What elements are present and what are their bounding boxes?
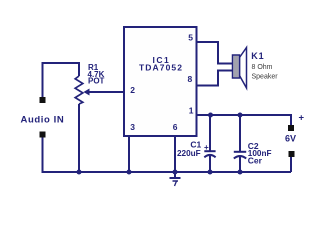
svg-text:+: +: [204, 143, 209, 152]
svg-text:6: 6: [173, 122, 178, 132]
svg-text:220uF: 220uF: [177, 149, 201, 158]
svg-text:C1: C1: [190, 140, 201, 150]
svg-text:3: 3: [130, 122, 135, 132]
svg-text:Audio IN: Audio IN: [21, 115, 65, 126]
svg-text:Speaker: Speaker: [252, 74, 279, 81]
svg-text:2: 2: [130, 85, 135, 95]
svg-text:TDA7052: TDA7052: [139, 63, 183, 73]
svg-text:1: 1: [189, 106, 194, 116]
svg-text:6V: 6V: [285, 133, 296, 143]
svg-text:8 Ohm: 8 Ohm: [252, 64, 273, 71]
svg-text:5: 5: [188, 33, 193, 43]
svg-text:+: +: [299, 113, 305, 124]
svg-text:POT: POT: [88, 77, 105, 86]
svg-text:Cer: Cer: [248, 156, 263, 166]
svg-text:8: 8: [188, 74, 193, 84]
svg-text:K1: K1: [251, 51, 264, 61]
